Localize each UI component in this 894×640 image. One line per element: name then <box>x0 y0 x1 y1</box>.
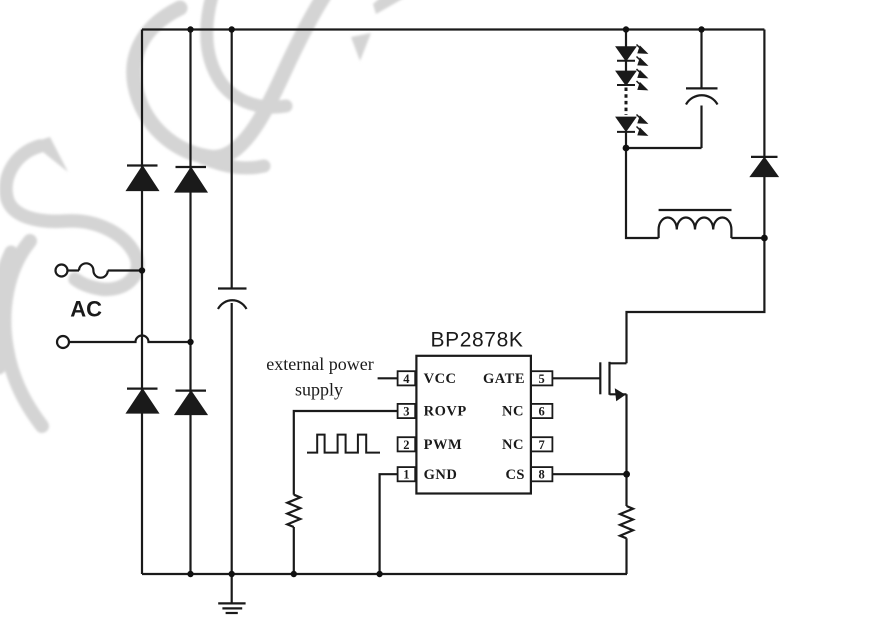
capacitor C2 (output) <box>626 30 718 149</box>
label external power supply <box>266 354 373 400</box>
wire cap branch v3 lower <box>231 303 233 574</box>
junction bottom rail / R1 <box>291 571 297 577</box>
svg-text:2: 2 <box>403 438 409 452</box>
wire CS pin to node <box>552 473 626 475</box>
wire AC live lead <box>68 269 79 271</box>
transistor Q1 (NMOS) <box>552 362 626 395</box>
pin labels <box>424 371 525 483</box>
junction bottom rail / GND pin <box>376 571 382 577</box>
wire second vertical v2 <box>189 30 191 575</box>
resistor R2 <box>620 506 633 538</box>
svg-text:NC: NC <box>502 404 524 420</box>
svg-text:GND: GND <box>424 467 458 483</box>
transistor Q1 source arrow <box>615 388 626 401</box>
svg-text:supply: supply <box>295 380 343 400</box>
wire R1 to ground rail <box>293 527 295 574</box>
resistor R1 <box>287 495 300 527</box>
LED string feed wire <box>625 30 627 48</box>
wire LED3 to node <box>625 132 627 148</box>
wire cap branch v3 upper <box>231 30 233 289</box>
svg-text:external power: external power <box>266 354 373 374</box>
svg-text:6: 6 <box>538 405 544 419</box>
wire source down to CS node <box>625 394 627 474</box>
pin 5 box <box>531 371 553 385</box>
svg-text:3: 3 <box>403 405 409 419</box>
wire top rail <box>142 28 764 30</box>
wire CS node down <box>625 474 627 506</box>
diode D2 <box>176 167 207 192</box>
svg-text:5: 5 <box>538 372 544 386</box>
wire fuse to v1 <box>108 269 142 271</box>
junction top rail / D2 branch <box>187 26 193 32</box>
node CS sense <box>623 471 630 478</box>
svg-text:NC: NC <box>502 437 524 453</box>
terminal AC neutral <box>57 336 69 348</box>
pin 4 box <box>398 371 416 385</box>
node SW inductor / D5 <box>761 235 768 242</box>
wire GND pin to rail <box>380 474 398 574</box>
ground <box>218 574 245 613</box>
junction top rail / LED string <box>623 26 629 32</box>
wire inductor to node <box>731 237 764 239</box>
inductor L1 <box>659 210 732 238</box>
wire node to inductor <box>626 148 659 238</box>
svg-text:BP2878K: BP2878K <box>431 329 524 352</box>
pin 8 box <box>531 467 553 481</box>
diode D4 <box>176 391 207 414</box>
wire dotted LED continuation <box>625 88 628 116</box>
PWM waveform symbol <box>307 435 380 453</box>
wire left vertical v1 <box>141 30 143 575</box>
LED emission arrows <box>637 45 647 136</box>
wire VCC stub <box>378 377 398 379</box>
wire right vertical top <box>763 30 765 157</box>
svg-text:VCC: VCC <box>424 371 457 387</box>
wire R2 to rail <box>625 538 627 574</box>
diode D1 <box>127 166 158 191</box>
IC U1 BP2878K body <box>416 356 531 494</box>
junction AC neutral / bridge <box>187 339 193 345</box>
junction AC live / bridge <box>139 267 145 273</box>
wire right vertical lower <box>627 176 765 363</box>
pin 2 box <box>398 437 416 451</box>
svg-text:CS: CS <box>505 467 525 483</box>
fuse F1 squiggle <box>79 263 108 277</box>
svg-text:1: 1 <box>403 468 409 482</box>
svg-text:GATE: GATE <box>483 371 525 387</box>
junction top rail / C1 branch <box>229 26 235 32</box>
svg-text:AC: AC <box>70 297 102 322</box>
wire LED1-LED2 <box>625 61 627 72</box>
junction top rail / C2 branch <box>698 26 704 32</box>
pin 1 box <box>398 467 416 481</box>
wire ROVP to resistor R1 <box>294 411 398 495</box>
LED LED2 <box>617 72 635 85</box>
pin 3 box <box>398 404 416 418</box>
svg-text:8: 8 <box>538 468 544 482</box>
wire AC neutral lead with hop over v1 <box>70 336 191 343</box>
svg-text:4: 4 <box>403 372 410 386</box>
pin 6 box <box>531 404 553 418</box>
svg-text:ROVP: ROVP <box>424 404 467 420</box>
node LED- / C2 <box>623 145 630 152</box>
wire bottom rail <box>142 573 627 575</box>
diode D5 (freewheeling) <box>751 157 778 176</box>
terminal AC live <box>56 265 68 277</box>
LED LED3 <box>617 118 635 132</box>
junction bottom rail / C1 <box>229 571 235 577</box>
svg-text:PWM: PWM <box>424 437 463 453</box>
diode D3 <box>127 389 158 413</box>
pin 7 box <box>531 437 553 451</box>
svg-text:7: 7 <box>538 438 544 452</box>
junction bottom rail / v2 <box>187 571 193 577</box>
capacitor C1 (bulk electrolytic) <box>218 289 247 310</box>
LED LED1 <box>617 47 635 61</box>
